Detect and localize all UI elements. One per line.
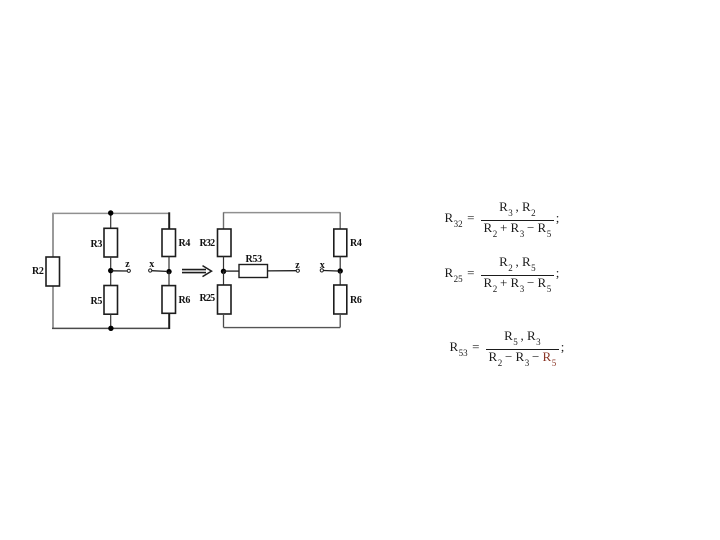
label R4 (left circuit) — [179, 238, 191, 249]
label R4 (right circuit) — [350, 238, 362, 249]
wire: R25 bottom lead — [223, 314, 225, 328]
wire: R3 bottom lead — [110, 257, 112, 271]
wire: terminal x to node — [152, 270, 167, 273]
resistor R4 — [162, 229, 176, 257]
label z (left circuit) — [125, 260, 129, 270]
wire: left circuit left rail — [52, 213, 54, 329]
formula R53 = R5.R3 / (R2 + R3 + R5) — [450, 330, 565, 363]
node: top junction — [108, 210, 113, 215]
wire: terminal x to node (right circuit) — [323, 270, 337, 273]
label R2 — [32, 266, 44, 277]
formula R25 = R2.R5 / (R2 + R3 + R5) — [445, 256, 560, 289]
wire: left circuit top rail — [53, 212, 170, 214]
wire: right circuit left rail top — [223, 212, 225, 229]
wire: right circuit right rail top — [339, 212, 341, 229]
wire: R4 bottom lead (right circuit) — [339, 257, 341, 272]
resistor R6 (right circuit) — [334, 285, 347, 314]
label R25 — [200, 293, 215, 304]
label R32 — [200, 238, 215, 249]
arrow: double line implication — [182, 266, 212, 277]
wire: R6 bottom lead (right circuit) — [339, 314, 341, 328]
wire: right circuit bottom rail — [224, 327, 341, 329]
resistor R3 — [104, 228, 118, 257]
wire: left circuit bottom rail — [52, 327, 170, 329]
node: middle junction (R3/R5) — [108, 268, 113, 273]
node: R4/R6 junction (right circuit) — [338, 268, 343, 273]
formula R32 = R3.R2 / (R2 + R3 + R5) — [445, 201, 560, 234]
label z (right circuit) — [295, 261, 299, 271]
label R5 — [91, 296, 103, 307]
wire: R3 top lead — [110, 213, 112, 228]
label R6 (right circuit) — [350, 295, 362, 306]
resistor R25 — [218, 285, 232, 314]
resistor R53 — [239, 265, 268, 278]
wire: node to R6 — [168, 272, 170, 286]
node: R32/R25 junction — [221, 269, 226, 274]
resistor R32 — [218, 229, 232, 257]
wire: right rail lower segment — [168, 313, 170, 329]
wire: right rail upper segment — [168, 212, 170, 229]
terminal z circle — [127, 269, 130, 272]
wire: right circuit top rail — [224, 212, 341, 214]
label x (right circuit) — [320, 261, 325, 271]
label R53 — [246, 254, 262, 265]
resistor R4 (right circuit) — [334, 229, 347, 257]
wire: node to R5 — [110, 271, 112, 286]
terminal x circle (right circuit) — [320, 269, 323, 272]
wire: R32 bottom lead — [223, 257, 225, 272]
label x (left circuit) — [149, 260, 154, 270]
wire: node to R53 — [224, 270, 240, 272]
wire: node to R25 — [223, 271, 225, 285]
resistor R6 — [162, 286, 176, 314]
wire: tap to terminal z — [111, 270, 127, 272]
wire: R5 bottom lead — [110, 314, 112, 328]
terminal x circle — [149, 269, 152, 272]
resistor R5 — [104, 286, 118, 315]
terminal z circle (right circuit) — [296, 269, 299, 272]
wire: R4 bottom lead — [168, 257, 170, 272]
wire: node to R6 (right circuit) — [339, 271, 341, 285]
node: R4/R6 junction — [166, 269, 171, 274]
wire: R53 to terminal z — [268, 270, 297, 272]
label R3 — [91, 239, 103, 250]
resistor R2 — [46, 257, 60, 286]
node: bottom junction — [108, 326, 113, 331]
label R6 (left circuit) — [179, 295, 191, 306]
